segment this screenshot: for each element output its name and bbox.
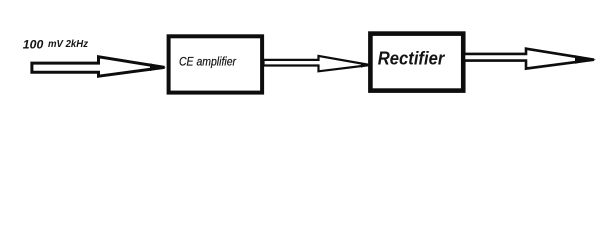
svg-text:Rectifier: Rectifier [378,48,445,68]
input signal label "100 mV 2kHz" [23,37,89,51]
svg-text:CE amplifier: CE amplifier [179,54,237,68]
output arrow [464,49,596,69]
svg-text:mV 2kHz: mV 2kHz [48,39,89,50]
block Rectifier [370,34,463,91]
input arrow [32,57,166,76]
svg-text:100: 100 [23,37,44,51]
block CE amplifier [169,36,263,92]
arrow CE amplifier to Rectifier [264,56,372,71]
